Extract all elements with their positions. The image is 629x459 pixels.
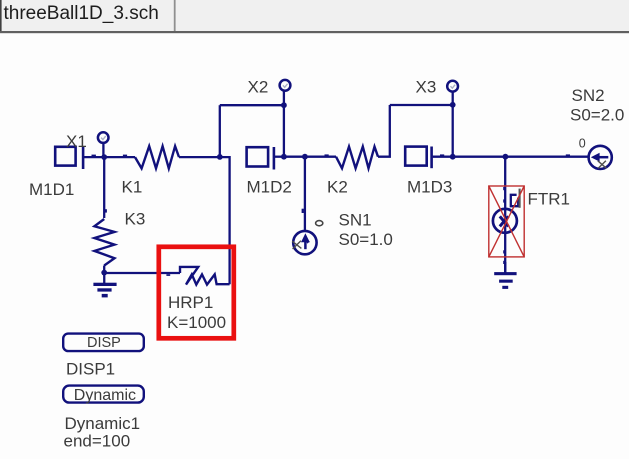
ground GND2 [494,262,516,289]
node X2 circle [280,80,291,91]
source SN1 [293,231,316,254]
svg-text:X3: X3 [416,78,437,97]
pin marker SN2 left [566,154,570,156]
svg-text:X1: X1 [66,132,87,151]
node X3 circle [447,81,458,92]
wire X1 to K1 [104,156,135,158]
svg-text:K3: K3 [125,210,146,229]
source SN2 [589,146,612,169]
svg-text:Dynamic: Dynamic [74,387,136,404]
tab bar [0,0,629,33]
pin markers FTR1 [503,187,505,264]
svg-text:M1D3: M1D3 [407,178,452,197]
spring K1 [135,146,179,168]
wire ground junction to HRP1 [104,272,180,274]
SN2 selection cross [598,161,607,169]
M1D3 plate pin [430,147,433,169]
transducer FTR1 circle [493,209,517,233]
pin marker K3 top [105,209,107,212]
node X1 circle [98,132,109,143]
wire M1D2 plate to junction [275,156,284,158]
wire SN1 junction to K2 [305,156,336,158]
svg-text:DISP: DISP [87,335,121,351]
ground GND1 [93,273,116,298]
node X1 stub wire [102,144,104,158]
pin marker K2 left [325,154,329,156]
node X3 stub wire [452,92,454,105]
svg-text:X2: X2 [248,78,269,97]
wire X1 down to K3 [103,157,105,218]
junction X3 [450,102,456,108]
pin marker HRP1 left [166,274,170,276]
wire X3 horizontal [390,104,453,106]
svg-text:HRP1: HRP1 [168,293,213,312]
highlight box HRP1 [159,247,234,338]
svg-text:K=1000: K=1000 [167,313,226,332]
wire FTR1 vertical [504,157,506,273]
junction M1D2 [281,154,287,160]
wire X2 down to M1D2 [283,105,285,157]
svg-text:S0=1.0: S0=1.0 [339,230,393,249]
pin marker M1D3 [440,154,444,156]
svg-text:FTR1: FTR1 [528,189,571,208]
pin marker SN1 [302,209,304,213]
junction X2 [281,102,287,108]
spring K2 [336,147,378,169]
wire junction A to HRP1 vertical [220,157,230,284]
wire M1D3 plate to junction [433,156,453,158]
junction A [217,154,223,160]
svg-text:end=100: end=100 [64,431,131,450]
wire X3 down to M1D3 [452,105,454,157]
junction X1 [101,154,107,160]
svg-text:SN1: SN1 [339,210,372,229]
pin marker M1D1 [92,155,96,157]
DISP block [63,334,144,352]
svg-text:DISP1: DISP1 [66,360,115,379]
damper HRP1 symbol [180,267,230,285]
wire K3 to ground junction [103,266,105,273]
M1D1 plate pin [82,146,85,169]
junction SN1 [302,154,308,160]
FTR1 selection box with cross [489,186,524,257]
svg-text:threeBall1D_3.sch: threeBall1D_3.sch [4,3,159,24]
svg-text:M1D2: M1D2 [247,178,292,197]
SN1 pin 0 label [316,221,323,226]
pin marker K1 left [123,155,127,157]
svg-text:0: 0 [579,137,586,151]
svg-text:S0=2.0: S0=2.0 [570,106,624,125]
wire M1D2 junction to SN1 junction [284,156,305,158]
Dynamic block [63,386,144,405]
junction M1D3 [450,154,456,160]
junction FTR1 [503,154,509,160]
spring K3 [94,219,114,266]
svg-text:M1D1: M1D1 [29,180,74,199]
wire K2 to X3 riser [378,105,390,157]
mass M1D2 body [247,147,269,166]
mass M1D3 body [405,147,427,166]
M1D2 plate pin [273,147,276,170]
node X2 stub wire [283,91,285,105]
wire SN1 vertical [304,157,306,232]
SN1 selection cross [292,241,301,249]
junction K3 ground [101,270,107,276]
svg-text:K2: K2 [327,178,348,197]
wire junction A up [219,105,221,157]
wire K1 to junction A [179,156,220,158]
FTR1 d-glyph [511,189,520,208]
wire X2 horizontal [220,104,284,106]
mass M1D1 body [55,147,75,166]
wire M1D1 to node X1 [84,156,104,158]
wire M1D3 to SN2 [453,156,589,158]
svg-text:Dynamic1: Dynamic1 [65,414,141,433]
svg-text:SN2: SN2 [572,86,605,105]
svg-text:K1: K1 [122,178,143,197]
